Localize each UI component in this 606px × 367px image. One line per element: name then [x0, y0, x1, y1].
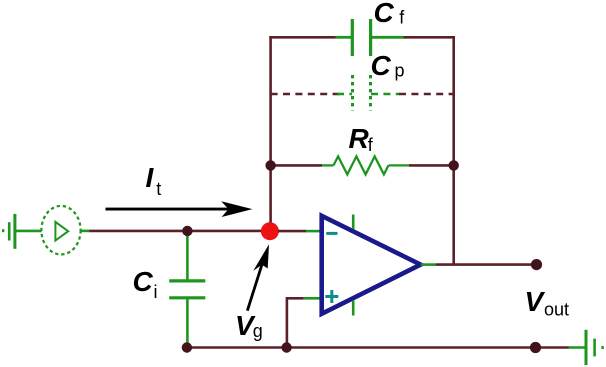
wire top (Cf branch) maroon segments [269, 36, 455, 39]
svg-text:f: f [399, 7, 405, 27]
wire ground to current source [15, 230, 42, 233]
node junction rail at output side [530, 342, 541, 353]
label Cf [374, 0, 406, 28]
wire output net [436, 263, 534, 266]
svg-text:R: R [349, 123, 370, 154]
ground GND1 (left) [3, 214, 15, 249]
node Vg (red dot) [261, 222, 279, 240]
power stub top of op-amp [352, 215, 355, 230]
capacitor C1 plates (Ci) [169, 281, 205, 298]
wire op-amp output green stub [421, 263, 436, 266]
wire red node to op-amp inverting input [278, 230, 306, 233]
svg-text:out: out [544, 300, 569, 320]
node junction Rf right [449, 160, 459, 170]
wire Cf leads (green) [336, 36, 404, 39]
wire input net to red node [90, 230, 264, 233]
wire Ci top lead [186, 231, 189, 280]
wire Cp dashed maroon segments [271, 93, 454, 96]
node junction at Ci top [182, 226, 192, 236]
label It [146, 162, 162, 199]
wire Ci bottom lead [186, 299, 189, 348]
svg-text:g: g [253, 321, 263, 341]
label Cp [371, 50, 405, 81]
node junction Rf left [265, 160, 275, 170]
op-amp U1 (triangle) [322, 216, 421, 314]
wire green segment to right ground [569, 346, 587, 349]
svg-text:t: t [156, 179, 161, 199]
wire Cp dashed green leads [337, 93, 399, 96]
arrow It (current direction) [106, 201, 253, 217]
label Rf [349, 123, 374, 155]
arrow Vg to red node [246, 244, 269, 311]
wire green stub at inverting input [306, 230, 320, 233]
wire feedback left vertical [269, 36, 272, 229]
wire green stub at non-inverting input [304, 297, 320, 300]
ground GND2 (right) [586, 330, 603, 365]
svg-text:f: f [368, 135, 374, 155]
minus symbol at inverting input [326, 232, 337, 235]
power stub bottom of op-amp [352, 301, 355, 316]
node junction rail at Ci [182, 342, 192, 352]
plus symbol at non-inverting input [325, 290, 338, 303]
svg-text:C: C [374, 0, 395, 28]
label Vg [235, 310, 263, 341]
capacitor Cf plates [352, 19, 370, 56]
wire non-inverting input to ground rail [287, 298, 304, 347]
svg-text:I: I [146, 162, 155, 193]
wire Rf branch maroon segments [271, 164, 454, 167]
wire current source output (green stub) [81, 230, 91, 233]
svg-text:i: i [154, 282, 158, 302]
label Vout [525, 286, 570, 320]
svg-text:C: C [371, 50, 392, 81]
svg-text:p: p [395, 61, 405, 81]
wire bottom ground rail [187, 346, 569, 349]
node junction rail at op-amp + [281, 342, 291, 352]
current source It (dashed circle with triangle) [41, 206, 80, 255]
capacitor Cp plates (dotted) [353, 75, 371, 111]
svg-text:C: C [133, 266, 154, 297]
svg-text:V: V [525, 286, 546, 317]
label Ci [133, 266, 158, 302]
resistor Rf (green zigzag with leads) [322, 156, 409, 174]
node output terminal [531, 259, 542, 270]
wire feedback right vertical [452, 36, 455, 265]
